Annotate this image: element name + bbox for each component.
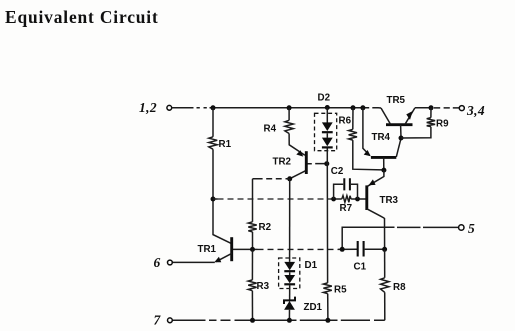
wire R4 column upper xyxy=(288,108,290,121)
node junction R1 col / base wire xyxy=(211,197,216,202)
transistor TR5 bar xyxy=(386,123,413,126)
wire TR2 collector xyxy=(290,171,306,179)
wire R3 column upper xyxy=(251,249,253,280)
wire TR2 collector to R2 corner (part dashed) xyxy=(253,178,290,180)
node junction rail ZD1 xyxy=(287,318,292,323)
terminal 1,2 xyxy=(167,105,172,110)
wire TR3 collector xyxy=(368,170,384,186)
node junction R7 right xyxy=(355,197,360,202)
transistor TR4 emitter arrow xyxy=(364,150,371,156)
svg-text:TR5: TR5 xyxy=(387,95,406,106)
dashed box D2 xyxy=(315,113,337,150)
svg-text:R8: R8 xyxy=(393,282,406,293)
resistor R8 xyxy=(381,278,389,293)
wire top rail left xyxy=(172,107,363,109)
svg-text:ZD1: ZD1 xyxy=(304,302,323,313)
svg-text:TR1: TR1 xyxy=(198,244,217,255)
svg-text:R5: R5 xyxy=(334,285,347,296)
resistor R4 xyxy=(285,120,293,133)
svg-text:R9: R9 xyxy=(436,119,449,130)
wire TR4 base down xyxy=(383,157,385,170)
node junction top rail at TR4 feed xyxy=(360,105,365,110)
wire TR2 base xyxy=(308,163,327,165)
svg-text:C2: C2 xyxy=(331,166,344,177)
svg-text:R6: R6 xyxy=(339,116,352,127)
transistor TR3 collector arrow xyxy=(369,179,376,185)
wire C1 right to R8 col xyxy=(365,248,385,250)
resistor R6 xyxy=(349,129,357,140)
wire D1 to ZD1 xyxy=(289,285,291,301)
terminal 5 xyxy=(459,225,464,230)
wire R9 column upper xyxy=(430,108,432,118)
node junction C1 right / TR3 emitter / R8 xyxy=(382,247,387,252)
transistor TR5 emitter arrow xyxy=(406,111,412,120)
wire R1 column upper xyxy=(212,108,214,137)
wire D2 col to TR2 base junction and down xyxy=(326,149,328,283)
resistor R5 xyxy=(323,283,331,294)
wire R6 bottom to TR4 base node xyxy=(353,140,384,170)
wire dashes to terminal 3,4 xyxy=(434,107,459,109)
wire R5 lower xyxy=(327,294,329,321)
resistor R2 xyxy=(248,222,256,232)
wire TR3 emitter xyxy=(367,209,385,250)
node junction TR2 base / D2 col xyxy=(324,161,329,166)
svg-text:R3: R3 xyxy=(257,281,270,292)
node junction TR4 base / R6 / TR3 collector xyxy=(381,168,386,173)
wire R6 column xyxy=(352,108,354,130)
svg-text:3,4: 3,4 xyxy=(466,103,485,118)
terminal 3,4 xyxy=(459,106,464,111)
diode D1a xyxy=(284,262,295,270)
dashed box D1 xyxy=(279,258,300,289)
transistor TR3 bar xyxy=(365,185,368,210)
node junction top rail at R6 xyxy=(351,105,356,110)
wire R2 column upper xyxy=(252,179,254,222)
diode D2b xyxy=(322,138,333,147)
svg-text:R2: R2 xyxy=(259,222,272,233)
wire TR5 right lead xyxy=(405,108,415,124)
wire long horizontal y=199 dashed xyxy=(213,198,218,200)
transistor TR2 emitter arrow xyxy=(296,150,303,156)
svg-text:TR4: TR4 xyxy=(372,132,391,143)
wire TR1 base xyxy=(233,248,253,250)
svg-text:R1: R1 xyxy=(219,139,232,150)
wire TR4 emitter feed xyxy=(363,108,370,156)
wire ZD1 to bottom rail xyxy=(288,310,290,321)
capacitor C2 xyxy=(334,184,358,199)
wire R8 column upper xyxy=(384,249,386,277)
wire top rail right of TR5 xyxy=(415,107,431,109)
wire TR4 collector diag xyxy=(396,138,401,157)
node junction C1 left / term5 xyxy=(340,247,345,252)
diode D1b xyxy=(284,275,295,283)
svg-text:7: 7 xyxy=(154,312,162,327)
svg-text:5: 5 xyxy=(468,221,475,236)
resistor R7 xyxy=(342,196,351,203)
wire R8 column lower to rail corner xyxy=(384,292,386,320)
node junction rail R5 xyxy=(325,318,330,323)
svg-text:TR3: TR3 xyxy=(380,195,399,206)
svg-text:D1: D1 xyxy=(305,260,318,271)
wire R7 to TR3 base xyxy=(351,198,366,200)
capacitor C1 xyxy=(358,241,364,257)
terminal 7 xyxy=(168,318,173,323)
wire TR1 emitter xyxy=(216,253,232,261)
node junction TR1 base / R2 / R3 xyxy=(250,247,255,252)
wire R2 column lower xyxy=(252,232,254,250)
resistor R9 xyxy=(427,118,435,127)
wire terminal 6 xyxy=(172,261,215,263)
svg-text:1,2: 1,2 xyxy=(139,100,157,115)
node junction top rail at R1 xyxy=(211,105,216,110)
transistor TR4 bar xyxy=(371,156,396,159)
terminal 6 xyxy=(168,260,173,265)
node junction top rail at D2 xyxy=(325,105,330,110)
diode D2a xyxy=(322,122,333,131)
svg-text:C1: C1 xyxy=(354,262,367,273)
wire TR5 left lead xyxy=(381,108,391,124)
wire R4 to TR2 emitter xyxy=(289,134,305,156)
node junction top rail at R4 xyxy=(287,105,292,110)
wire D1 column upper xyxy=(289,179,291,262)
wire R9 bottom to node xyxy=(401,127,431,138)
svg-text:D2: D2 xyxy=(318,92,331,103)
node junction rail R3 xyxy=(250,318,255,323)
transistor TR1 emitter arrow xyxy=(214,257,221,263)
wire R1 column lower xyxy=(213,149,232,244)
wire between D1 diodes xyxy=(289,272,291,275)
node junction TR2 collector xyxy=(287,176,292,181)
wire D2 col upper xyxy=(326,108,328,123)
zener ZD1 xyxy=(284,301,295,310)
resistor R3 xyxy=(248,280,256,291)
wire TR5 base down xyxy=(400,125,402,138)
node junction TR5 base / TR4 collector / R9 xyxy=(399,136,404,141)
node junction R7 left xyxy=(331,197,336,202)
wire long horizontal y=249.4 dashed xyxy=(253,248,258,250)
wire bottom rail xyxy=(172,319,384,321)
svg-text:TR2: TR2 xyxy=(273,157,292,168)
svg-text:R4: R4 xyxy=(264,124,277,135)
wire terminal5 branch xyxy=(342,227,458,249)
wire between D2 diodes xyxy=(326,133,328,138)
wire top rail dashes before TR5 xyxy=(365,107,382,109)
svg-text:6: 6 xyxy=(154,255,161,270)
node junction top rail at R9 xyxy=(429,105,434,110)
transistor TR1 bar xyxy=(230,237,233,261)
svg-text:R7: R7 xyxy=(340,203,353,214)
svg-text:Equivalent Circuit: Equivalent Circuit xyxy=(5,7,159,27)
transistor TR2 bar xyxy=(305,151,308,174)
resistor R1 xyxy=(209,137,217,149)
wire R3 column lower xyxy=(251,291,253,321)
